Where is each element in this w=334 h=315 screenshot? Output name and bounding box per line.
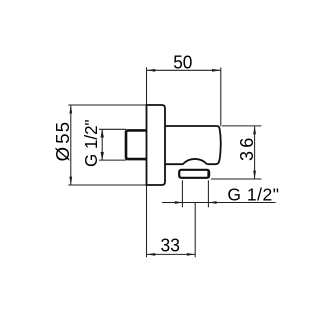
svg-text:33: 33 <box>161 235 180 255</box>
svg-text:G 1/2": G 1/2" <box>81 119 101 167</box>
svg-text:G 1/2": G 1/2" <box>227 185 279 205</box>
svg-text:Ø55: Ø55 <box>52 121 73 162</box>
svg-text:50: 50 <box>173 52 192 72</box>
